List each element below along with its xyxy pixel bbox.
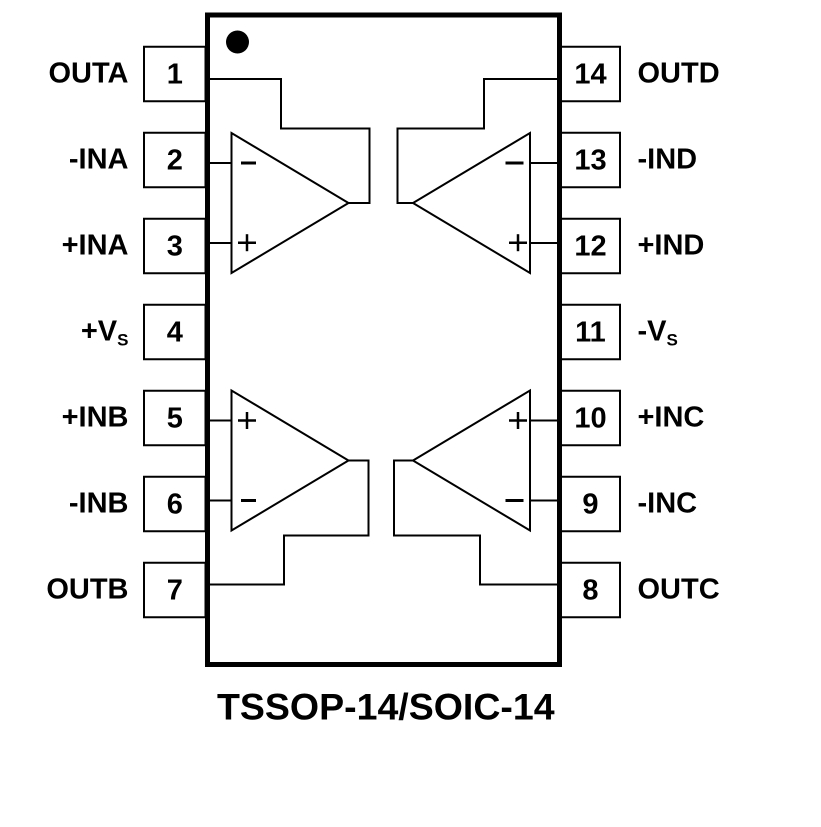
pin 3 box — [144, 219, 206, 274]
svg-text:OUTB: OUTB — [46, 574, 128, 606]
pin 11 box — [561, 305, 620, 360]
op-amp C inverting input minus sign — [506, 499, 524, 502]
pin 9 box — [561, 477, 620, 532]
svg-text:OUTA: OUTA — [48, 58, 128, 90]
svg-text:+IND: +IND — [638, 230, 705, 262]
pin 13 box — [561, 133, 620, 188]
op-amp B triangle — [232, 391, 349, 531]
pin 5 box — [144, 391, 206, 446]
op-amp D non-inverting input plus sign — [509, 234, 527, 251]
svg-text:11: 11 — [575, 316, 606, 348]
op-amp C triangle — [413, 391, 530, 531]
pin 6 box — [144, 477, 206, 532]
wire op-amp C output to pin 8 — [394, 461, 560, 585]
svg-text:13: 13 — [574, 144, 606, 176]
pin 12 box — [561, 219, 620, 274]
wire op-amp D output to pin 14 — [398, 79, 561, 203]
pin 1 box — [144, 47, 206, 102]
wire pin 10 to op-amp C non-inverting input — [530, 420, 561, 422]
svg-text:8: 8 — [582, 574, 598, 606]
op-amp A triangle — [232, 133, 349, 273]
pin 7 box — [144, 563, 206, 618]
svg-text:4: 4 — [167, 316, 183, 348]
wire op-amp A output to pin 1 — [207, 79, 370, 203]
svg-text:+INC: +INC — [638, 402, 705, 434]
svg-text:-IND: -IND — [638, 144, 698, 176]
op-amp D inverting input minus sign — [506, 162, 524, 165]
op-amp C non-inverting input plus sign — [509, 412, 527, 429]
svg-text:-INB: -INB — [69, 488, 129, 520]
pin 4 box — [144, 305, 206, 360]
op-amp D triangle — [413, 133, 530, 273]
svg-text:+INB: +INB — [62, 402, 129, 434]
pin 8 box — [561, 563, 620, 618]
svg-text:9: 9 — [582, 488, 598, 520]
op-amp B non-inverting input plus sign — [238, 412, 256, 429]
svg-text:3: 3 — [167, 230, 183, 262]
IC body U1 TSSOP-14/SOIC-14 outline — [208, 15, 560, 665]
svg-text:OUTC: OUTC — [638, 574, 720, 606]
op-amp A non-inverting input plus sign — [238, 234, 256, 251]
svg-text:TSSOP-14/SOIC-14: TSSOP-14/SOIC-14 — [217, 686, 555, 728]
pin 2 box — [144, 133, 206, 188]
op-amp B inverting input minus sign — [241, 499, 256, 502]
svg-text:+INA: +INA — [62, 230, 129, 262]
wire pin 13 to op-amp D inverting input — [530, 162, 561, 164]
pin 14 box — [561, 47, 620, 102]
wire pin 2 to op-amp A inverting input — [206, 162, 232, 164]
svg-text:OUTD: OUTD — [638, 58, 720, 90]
svg-text:6: 6 — [167, 488, 183, 520]
wire pin 9 to op-amp C inverting input — [530, 500, 561, 502]
svg-text:10: 10 — [574, 402, 606, 434]
pin 1 marker dot — [226, 31, 249, 54]
svg-text:-INA: -INA — [69, 144, 129, 176]
wire pin 12 to op-amp D non-inverting input — [530, 242, 561, 244]
svg-text:12: 12 — [574, 230, 606, 262]
svg-text:14: 14 — [574, 58, 606, 90]
op-amp A inverting input minus sign — [241, 162, 256, 165]
wire pin 3 to op-amp A non-inverting input — [206, 242, 232, 244]
svg-text:2: 2 — [167, 144, 183, 176]
svg-text:5: 5 — [167, 402, 183, 434]
svg-text:7: 7 — [167, 574, 183, 606]
svg-text:1: 1 — [167, 58, 183, 90]
svg-text:-INC: -INC — [638, 488, 698, 520]
wire pin 5 to op-amp B non-inverting input — [206, 420, 232, 422]
wire op-amp B output to pin 7 — [207, 461, 369, 585]
wire pin 6 to op-amp B inverting input — [206, 500, 232, 502]
pin 10 box — [561, 391, 620, 446]
